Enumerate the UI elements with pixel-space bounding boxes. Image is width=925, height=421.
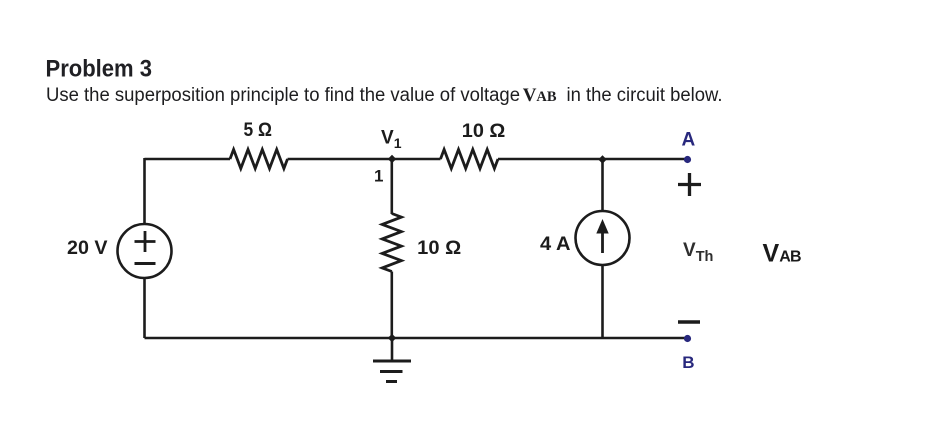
ground symbol [373,338,411,382]
svg-text:VAB: VAB [523,85,557,106]
wire: left branch below voltage source [143,278,146,338]
svg-text:VTh: VTh [683,240,713,265]
voltage source 20 V (circle with plus/minus) [118,224,172,278]
svg-text:Use the superposition principl: Use the superposition principle to find … [46,85,520,106]
resistor 5 ohm (top left, horizontal zigzag) [230,150,288,169]
wire: left branch above voltage source [143,158,146,224]
junction node (ground, bottom middle) [388,334,396,342]
minus sign (polarity at B) [678,320,700,324]
problem statement [46,85,723,106]
svg-text:A: A [682,129,696,150]
node V1 (junction dot) [388,155,396,163]
svg-text:Problem 3: Problem 3 [46,55,153,82]
node B (terminal dot) [684,335,691,342]
wire: top left segment (top-left corner to 5-ohm resistor) [145,158,231,161]
plus sign (polarity at A) [678,173,701,196]
wire: top right segment (10-ohm resistor to node A) [498,158,685,161]
svg-text:V1: V1 [381,128,402,152]
svg-text:20 V: 20 V [67,237,108,259]
resistor 10 ohm (top right, horizontal zigzag) [441,150,499,169]
svg-text:10 Ω: 10 Ω [462,120,506,142]
svg-text:in the circuit below.: in the circuit below. [567,85,723,106]
node A (terminal dot) [684,156,691,163]
junction node (current source top) [598,155,606,163]
wire: top middle segment (5-ohm to 10-ohm resistor, through node V1) [288,158,441,161]
svg-text:VAB: VAB [763,239,802,267]
svg-text:B: B [682,353,694,372]
wire: current source branch above circle [601,159,604,212]
svg-text:5 Ω: 5 Ω [244,119,273,141]
wire: bottom rail (bottom-left corner to node B) [145,337,686,340]
svg-text:4 A: 4 A [540,233,571,255]
current source 4 A (circle with up arrow) [576,211,630,265]
svg-text:1: 1 [374,167,383,186]
wire: middle branch below 10-ohm resistor [390,272,393,339]
resistor 10 ohm (middle, vertical zigzag) [382,214,401,272]
wire: current source branch below circle [601,265,604,339]
wire: middle branch above 10-ohm resistor [390,159,393,214]
svg-text:10 Ω: 10 Ω [417,237,461,259]
